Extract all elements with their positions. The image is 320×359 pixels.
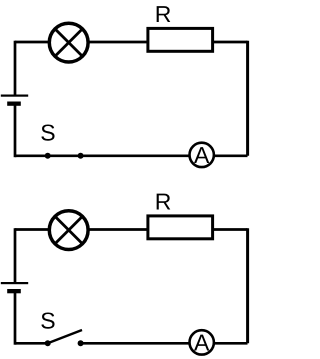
battery cell B2: long positive plate bbox=[1, 282, 28, 284]
battery cell B2: short thick negative plate bbox=[7, 289, 21, 293]
switch S2 (open): left contact dot bbox=[45, 340, 51, 346]
battery cell B1: short thick negative plate bbox=[7, 102, 21, 106]
wire: right side circuit 2 bbox=[246, 228, 249, 343]
wire: left side upper (to battery +) circuit 1 bbox=[14, 41, 17, 96]
lamp L2: circle bbox=[49, 211, 88, 250]
svg-text:A: A bbox=[194, 142, 210, 168]
lamp L1: circle bbox=[49, 23, 88, 62]
wire: right side circuit 1 bbox=[246, 41, 249, 156]
wire: bottom-right segment (from open switch to ammeter) circuit 2 bbox=[81, 342, 248, 345]
switch S2 (open): lever arm bbox=[48, 330, 82, 343]
battery cell B1: long positive plate bbox=[1, 95, 28, 97]
wire: left side lower (from battery -) circuit 1 bbox=[14, 104, 17, 158]
switch S2 (open): right contact dot bbox=[78, 340, 84, 346]
svg-text:A: A bbox=[194, 330, 210, 356]
svg-text:R: R bbox=[155, 1, 172, 27]
ammeter A1: circle bbox=[190, 143, 214, 167]
lamp L2: cross stroke 2 bbox=[55, 216, 82, 243]
wire: left side upper (to battery +) circuit 2 bbox=[14, 228, 17, 283]
resistor R (top): body rectangle bbox=[148, 28, 213, 51]
switch S1 (closed): right contact dot bbox=[78, 153, 84, 159]
ammeter A2: circle bbox=[190, 330, 214, 354]
svg-text:S: S bbox=[40, 120, 55, 146]
lamp L1: cross stroke 2 bbox=[55, 29, 82, 56]
svg-text:S: S bbox=[40, 308, 55, 334]
svg-text:R: R bbox=[155, 188, 172, 214]
wire: left side lower (from battery -) circuit 2 bbox=[14, 291, 17, 345]
resistor R (bottom): body rectangle bbox=[148, 216, 213, 239]
switch S1 (closed): left contact dot bbox=[45, 153, 51, 159]
lamp L2: cross stroke 1 bbox=[55, 216, 82, 243]
wire: bottom-left segment (to open switch) circuit 2 bbox=[15, 342, 48, 345]
lamp L1: cross stroke 1 bbox=[55, 29, 82, 56]
wire: top side circuit 2 bbox=[15, 228, 248, 231]
wire: top side circuit 1 bbox=[15, 41, 248, 44]
wire: bottom side circuit 1 bbox=[15, 154, 248, 157]
